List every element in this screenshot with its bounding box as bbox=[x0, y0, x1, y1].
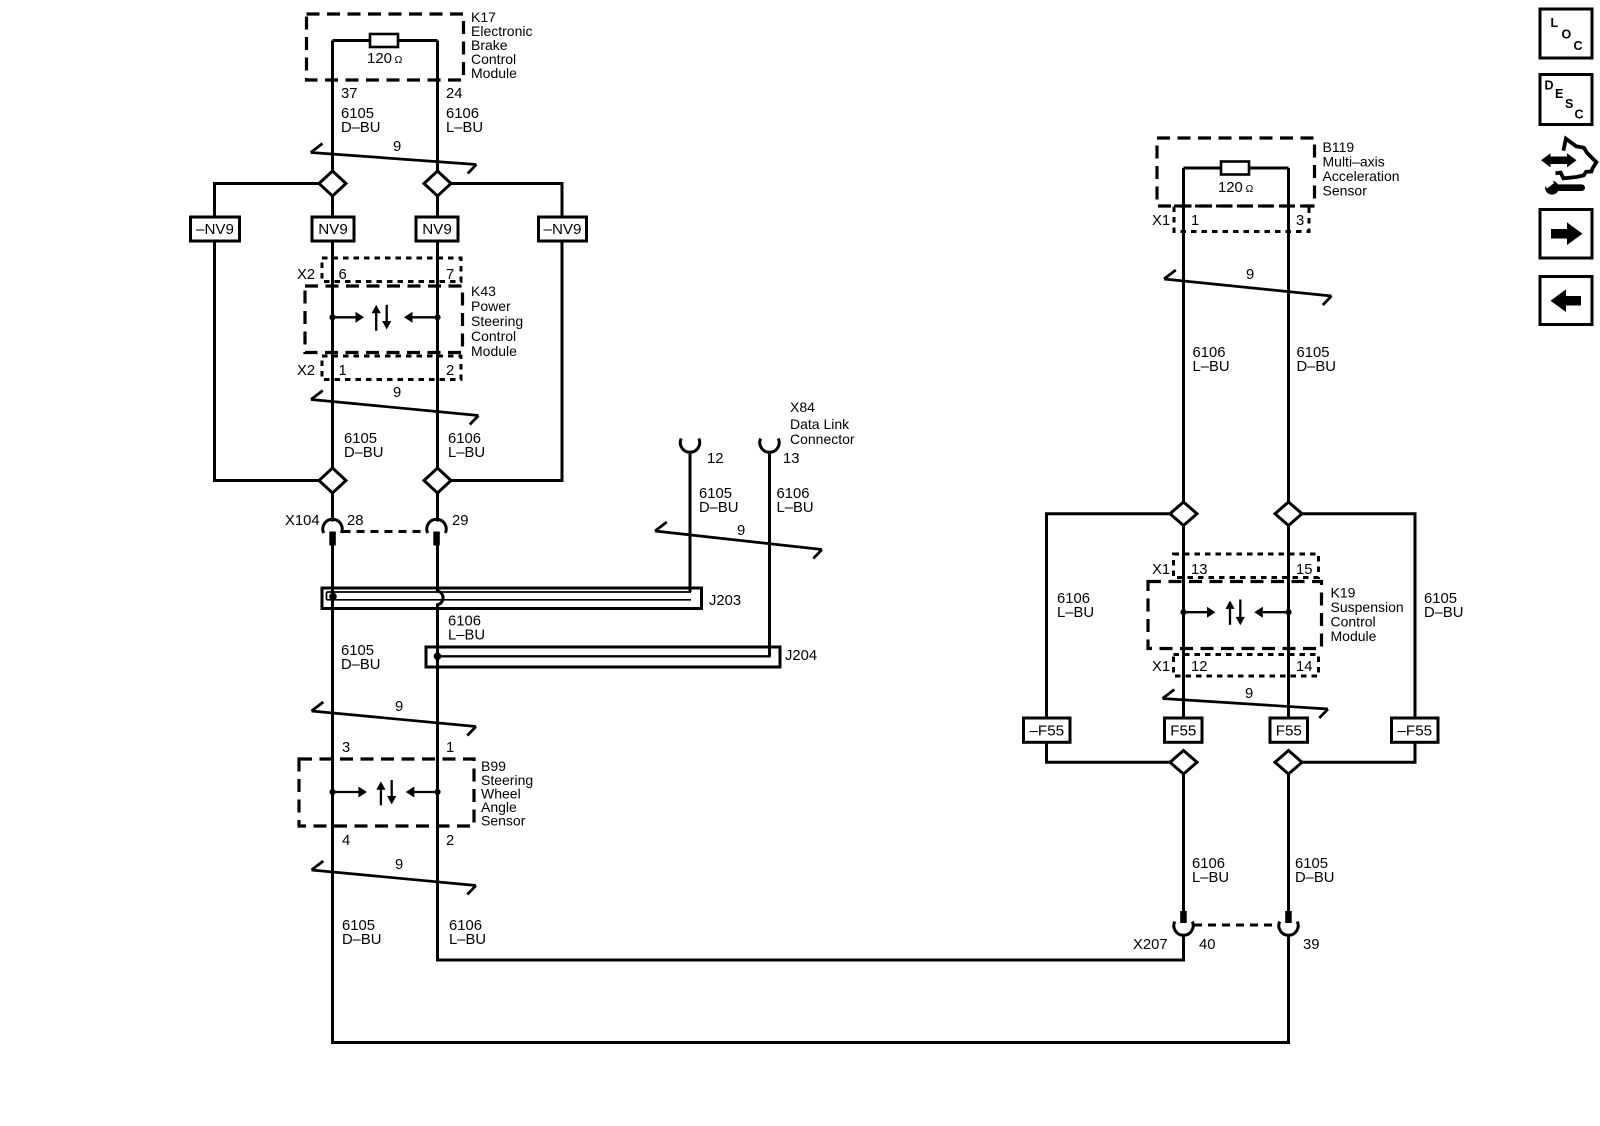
arrow right from 6105 dot (K43) bbox=[333, 316, 357, 318]
fuse box -F55 (far right) bbox=[1392, 718, 1439, 742]
svg-text:12: 12 bbox=[707, 451, 723, 467]
svg-text:X1: X1 bbox=[1152, 562, 1170, 578]
svg-text:15: 15 bbox=[1296, 562, 1312, 578]
fuse box -NV9 (mid right) bbox=[539, 217, 587, 241]
harness crossing symbol 9 (below K19) bbox=[1163, 690, 1329, 719]
wire 6106 through NV9 / K43 to diamond row 2 bbox=[436, 241, 439, 469]
junction dot on 6105 inside K43 bbox=[329, 314, 335, 320]
svg-text:Data Link: Data Link bbox=[790, 416, 850, 432]
svg-text:Sensor: Sensor bbox=[1323, 183, 1368, 199]
wire left branch loop to -F55 bbox=[1047, 514, 1171, 718]
inline connector X207 pin 40 (pin and cup) bbox=[1180, 911, 1187, 923]
svg-text:J204: J204 bbox=[785, 648, 817, 664]
svg-text:28: 28 bbox=[347, 513, 363, 529]
svg-text:X1: X1 bbox=[1152, 659, 1170, 675]
svg-text:13: 13 bbox=[1191, 562, 1207, 578]
harness crossing symbol 9 (X84 drop) bbox=[655, 522, 822, 559]
svg-text:L–BU: L–BU bbox=[1192, 870, 1229, 886]
svg-text:9: 9 bbox=[395, 699, 403, 715]
harness crossing symbol 9 (top left) bbox=[311, 144, 477, 174]
svg-text:X2: X2 bbox=[297, 363, 315, 379]
svg-text:C: C bbox=[1575, 108, 1584, 122]
resistor 120 ohm (K17) bbox=[370, 34, 398, 47]
arrow up (K19) bbox=[1229, 609, 1231, 625]
connector X2 row pins 1,2 (dotted box) bbox=[322, 356, 461, 380]
fuse box F55 (on 6105) bbox=[1270, 718, 1308, 742]
wire -NV9 right leg down to diamond row 2 bbox=[451, 241, 563, 481]
svg-text:L–BU: L–BU bbox=[448, 628, 485, 644]
svg-text:S: S bbox=[1565, 97, 1573, 111]
svg-text:L–BU: L–BU bbox=[448, 445, 485, 461]
svg-text:9: 9 bbox=[1245, 686, 1253, 702]
svg-text:9: 9 bbox=[1246, 267, 1254, 283]
arrow left from 6106 dot (B99) bbox=[414, 791, 438, 793]
svg-text:J203: J203 bbox=[709, 593, 741, 609]
svg-text:Module: Module bbox=[471, 65, 517, 81]
svg-text:D: D bbox=[1545, 79, 1554, 93]
svg-text:X1: X1 bbox=[1152, 213, 1170, 229]
splice diamond on 6105 wire (right row 1) bbox=[1275, 502, 1302, 526]
wire -NV9 left leg down to diamond row 2 bbox=[215, 241, 320, 481]
splice diamond on 6106 wire (row 1) bbox=[424, 171, 451, 196]
svg-text:D–BU: D–BU bbox=[1297, 359, 1336, 375]
inline connector X104 pin 29 (dome and pin) bbox=[427, 519, 446, 533]
svg-text:L–BU: L–BU bbox=[1193, 359, 1230, 375]
splice diamond on 6106 wire (right row 2) bbox=[1170, 751, 1197, 775]
connector X2 row pins 6,7 (dotted box) bbox=[322, 258, 461, 282]
svg-text:3: 3 bbox=[342, 740, 350, 756]
wire 6106 diamond down to X207 pin 40 bbox=[1182, 774, 1185, 911]
svg-text:12: 12 bbox=[1191, 659, 1207, 675]
splice pack J204 internal bus bbox=[436, 647, 770, 656]
svg-text:9: 9 bbox=[395, 857, 403, 873]
svg-text:F55: F55 bbox=[1276, 723, 1302, 740]
wire 6105 through NV9 / K43 to diamond row 2 bbox=[331, 241, 334, 469]
inline connector X207 pin 39 (pin and cup) bbox=[1285, 911, 1292, 923]
svg-text:120: 120 bbox=[1218, 180, 1243, 196]
connector terminal X84 pin 12 (cup) bbox=[680, 439, 699, 453]
wire right branch loop to -F55 bbox=[1302, 514, 1415, 718]
fuse box F55 (on 6106) bbox=[1165, 718, 1203, 742]
arrow down (B99) bbox=[391, 780, 393, 797]
wire 6105 diamond to K19 to F55 bbox=[1287, 526, 1290, 719]
arrow left from 6105 dot (K19) bbox=[1263, 611, 1289, 613]
svg-text:1: 1 bbox=[1191, 213, 1199, 229]
dashed connector link X207 bbox=[1194, 924, 1278, 927]
svg-text:NV9: NV9 bbox=[422, 221, 452, 238]
splice diamond on 6106 wire (row 2) bbox=[424, 468, 451, 493]
svg-text:F55: F55 bbox=[1170, 723, 1196, 740]
wire diamond to NV9 (6105) bbox=[331, 196, 334, 217]
junction dot on 6106 inside B99 bbox=[434, 789, 440, 795]
svg-text:9: 9 bbox=[393, 139, 401, 155]
svg-text:D–BU: D–BU bbox=[699, 500, 738, 516]
arrow right from 6105 dot (B99) bbox=[333, 791, 360, 793]
junction dot on 6105 inside B99 bbox=[329, 789, 335, 795]
svg-text:D–BU: D–BU bbox=[341, 657, 380, 673]
svg-text:X207: X207 bbox=[1133, 937, 1168, 953]
dashed connector link X104 bbox=[343, 530, 427, 533]
svg-text:Connector: Connector bbox=[790, 431, 855, 447]
svg-text:–F55: –F55 bbox=[1397, 723, 1432, 740]
junction dot on 6106 inside K19 bbox=[1180, 609, 1186, 615]
svg-text:2: 2 bbox=[446, 363, 454, 379]
wire 6106 L-BU from K17 pin 24 down to splice diamond bbox=[436, 41, 439, 173]
wire 6105 X104 to J203 bbox=[331, 546, 334, 589]
svg-text:Ω: Ω bbox=[395, 54, 403, 66]
svg-text:1: 1 bbox=[446, 740, 454, 756]
svg-text:X84: X84 bbox=[790, 399, 815, 415]
connector terminal X84 pin 13 (cup) bbox=[760, 439, 779, 453]
wire 6105 through J203 down to B99 bbox=[331, 588, 334, 826]
fuse box NV9 (on 6105) bbox=[312, 217, 354, 241]
wire 6106 L-BU from X84 pin 13 down to J204 bbox=[768, 452, 771, 656]
splice pack J204 (outer box) bbox=[426, 647, 780, 667]
svg-text:D–BU: D–BU bbox=[1295, 870, 1334, 886]
svg-text:37: 37 bbox=[341, 86, 357, 102]
svg-text:–F55: –F55 bbox=[1029, 723, 1064, 740]
icon box arrow right bbox=[1540, 210, 1592, 259]
splice pack J203 internal bus bbox=[327, 592, 692, 600]
svg-text:Sensor: Sensor bbox=[481, 813, 526, 829]
svg-text:7: 7 bbox=[446, 267, 454, 283]
svg-text:D–BU: D–BU bbox=[341, 120, 380, 136]
junction dot J204 to 6106 wire bbox=[434, 653, 442, 661]
wire diamond to NV9 (6106) bbox=[436, 196, 439, 217]
connector X1 row pins 12,14 of K19 (dotted box) bbox=[1174, 655, 1319, 677]
svg-text:X104: X104 bbox=[285, 513, 320, 529]
svg-text:L–BU: L–BU bbox=[777, 500, 814, 516]
svg-text:NV9: NV9 bbox=[318, 221, 348, 238]
icon box LOC bbox=[1540, 9, 1592, 58]
svg-text:4: 4 bbox=[342, 833, 350, 849]
wire 6106 X104 down crossing J203 (with hop) into J204 and on to B99 bbox=[438, 546, 444, 827]
svg-text:Power: Power bbox=[471, 298, 511, 314]
svg-text:2: 2 bbox=[446, 833, 454, 849]
sensor B119 Multi-axis Acceleration Sensor (dashed box) bbox=[1157, 138, 1315, 206]
svg-text:L–BU: L–BU bbox=[449, 932, 486, 948]
svg-text:9: 9 bbox=[393, 385, 401, 401]
module K19 Suspension Control Module (dashed box) bbox=[1148, 582, 1322, 649]
splice diamond on 6105 wire (row 2) bbox=[319, 468, 346, 493]
wire from right splice diamond to -NV9 branch bbox=[451, 184, 563, 218]
svg-text:–NV9: –NV9 bbox=[544, 221, 582, 238]
svg-text:1: 1 bbox=[339, 363, 347, 379]
svg-text:L–BU: L–BU bbox=[1057, 605, 1094, 621]
svg-text:X2: X2 bbox=[297, 267, 315, 283]
harness crossing symbol 9 (below K43) bbox=[311, 391, 479, 425]
wire 6105 D-BU from X84 pin 12 down to J203 bbox=[689, 452, 692, 592]
svg-text:D–BU: D–BU bbox=[1424, 605, 1463, 621]
resistor 120 ohm (B119) bbox=[1221, 162, 1249, 175]
wire 6105 D-BU from B99 pin 4 routed right to X207 pin 39 bbox=[333, 826, 1289, 1043]
fuse box NV9 (on 6106) bbox=[416, 217, 458, 241]
svg-text:39: 39 bbox=[1303, 937, 1319, 953]
junction dot on 6106 inside K43 bbox=[434, 314, 440, 320]
junction dot on 6105 inside K19 bbox=[1285, 609, 1291, 615]
arrow up (B99) bbox=[380, 789, 382, 805]
svg-text:D–BU: D–BU bbox=[342, 932, 381, 948]
splice diamond on 6105 wire (row 1) bbox=[319, 171, 346, 196]
wire 6105 D-BU from B119 pin 3 down to splice diamond bbox=[1287, 168, 1290, 502]
splice pack J203 (outer box) bbox=[322, 588, 702, 609]
harness crossing symbol 9 (below B119) bbox=[1164, 270, 1332, 305]
svg-text:Module: Module bbox=[471, 343, 517, 359]
harness crossing symbol 9 (above B99) bbox=[312, 702, 477, 736]
wire 6105 D-BU from K17 pin 37 down to splice diamond bbox=[331, 41, 334, 173]
svg-text:Control: Control bbox=[471, 328, 516, 344]
wire 6105 diamond row2 to X104 pin 28 bbox=[331, 493, 334, 522]
svg-text:Steering: Steering bbox=[471, 313, 523, 329]
svg-text:6: 6 bbox=[339, 267, 347, 283]
wire B119 pin1 to pin3 through terminating resistor bbox=[1184, 167, 1289, 170]
fuse box -NV9 (far left) bbox=[191, 217, 240, 241]
connector X1 row pins 13,15 of K19 (dotted box) bbox=[1174, 554, 1319, 578]
svg-text:40: 40 bbox=[1199, 937, 1215, 953]
icon connector-repair (outline, double arrow, wrench) bbox=[1556, 139, 1597, 179]
svg-text:L–BU: L–BU bbox=[446, 120, 483, 136]
wire 6106 L-BU from B99 pin 2 routed right to X207 pin 40 bbox=[438, 826, 1184, 960]
icon box arrow left bbox=[1540, 277, 1592, 325]
arrow down (K43) bbox=[386, 305, 388, 322]
wire from left splice diamond to -NV9 branch bbox=[215, 184, 320, 218]
svg-text:E: E bbox=[1555, 87, 1563, 101]
svg-text:9: 9 bbox=[737, 523, 745, 539]
sensor B99 Steering Wheel Angle Sensor (dashed box) bbox=[299, 759, 474, 826]
arrow right from 6106 dot (K19) bbox=[1184, 611, 1209, 613]
svg-text:120: 120 bbox=[367, 50, 392, 67]
connector X1 row pins 1,3 of B119 (dotted box) bbox=[1174, 206, 1309, 232]
icon box DESC bbox=[1540, 75, 1592, 125]
wire 6106 L-BU from B119 pin 1 down to splice diamond bbox=[1182, 168, 1185, 502]
arrow up (K43) bbox=[375, 313, 377, 331]
svg-text:C: C bbox=[1574, 39, 1583, 53]
wire 6106 diamond to K19 to F55 bbox=[1182, 526, 1185, 719]
svg-text:29: 29 bbox=[452, 513, 468, 529]
svg-text:Module: Module bbox=[1331, 628, 1377, 644]
wire 6105 diamond down to X207 pin 39 bbox=[1287, 774, 1290, 911]
svg-text:24: 24 bbox=[446, 86, 462, 102]
harness crossing symbol 9 (below B99) bbox=[312, 861, 477, 895]
wire K17 pin37 to pin24 through terminating resistor bbox=[333, 39, 438, 42]
inline connector X104 pin 28 (dome and pin) bbox=[323, 519, 342, 533]
svg-text:14: 14 bbox=[1296, 659, 1312, 675]
arrow left from 6106 dot (K43) bbox=[412, 316, 438, 318]
svg-text:–NV9: –NV9 bbox=[196, 221, 234, 238]
module K43 Power Steering Control Module (dashed box) bbox=[305, 286, 463, 353]
svg-text:Ω: Ω bbox=[1246, 183, 1254, 195]
module K17 Electronic Brake Control Module (dashed box) bbox=[307, 14, 464, 80]
splice diamond on 6105 wire (right row 2) bbox=[1275, 751, 1302, 775]
splice diamond on 6106 wire (right row 1) bbox=[1170, 502, 1197, 526]
wire 6106 diamond row2 to X104 pin 29 bbox=[436, 493, 439, 522]
fuse box -F55 (far left) bbox=[1024, 718, 1071, 742]
svg-text:L: L bbox=[1551, 16, 1559, 30]
svg-text:D–BU: D–BU bbox=[344, 445, 383, 461]
svg-text:K43: K43 bbox=[471, 283, 496, 299]
arrow down (K19) bbox=[1239, 600, 1241, 618]
svg-text:O: O bbox=[1562, 28, 1572, 42]
svg-text:13: 13 bbox=[783, 451, 799, 467]
svg-text:3: 3 bbox=[1296, 213, 1304, 229]
junction dot J203 to 6105 wire bbox=[329, 593, 337, 601]
